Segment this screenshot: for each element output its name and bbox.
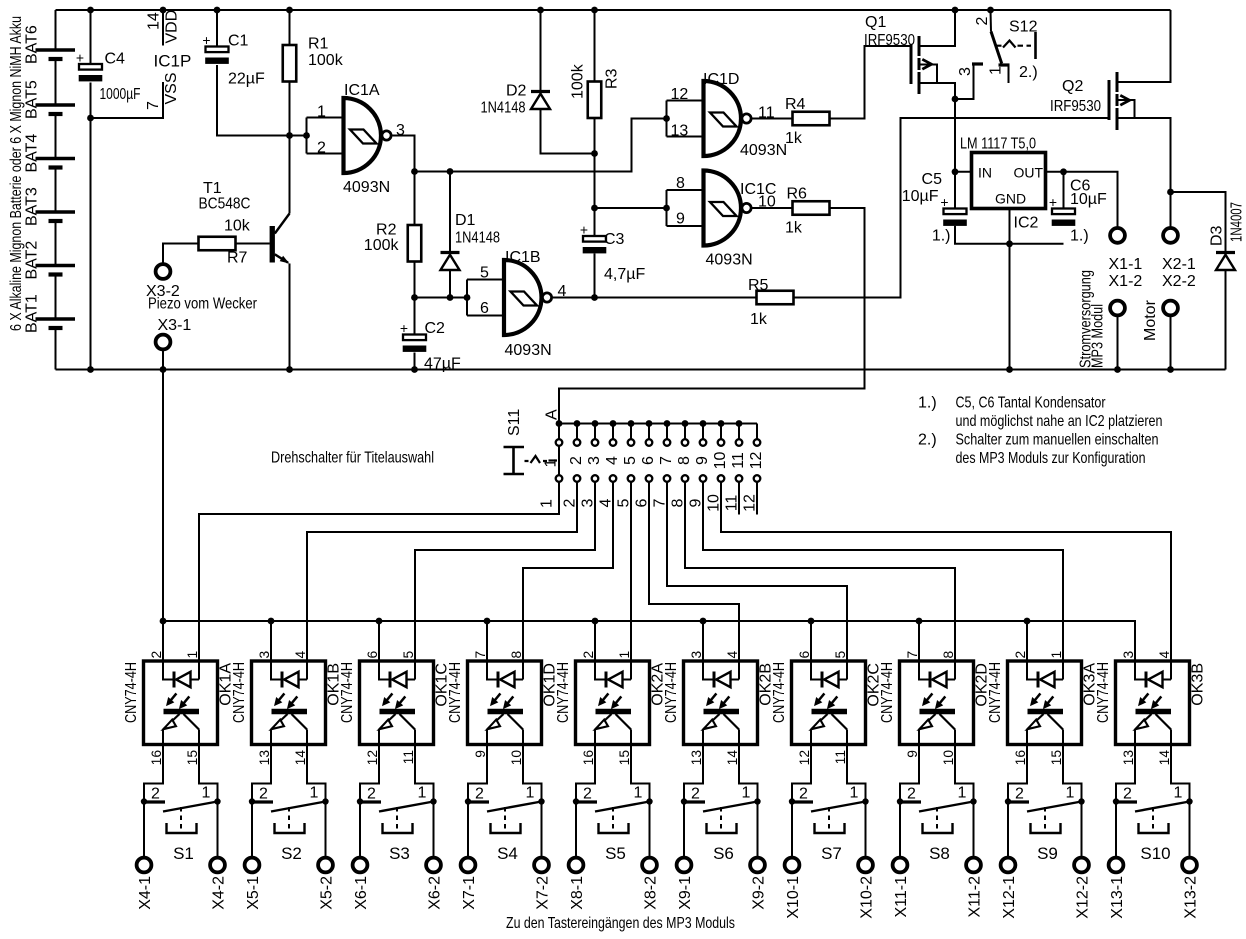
svg-text:1.): 1.) [932,228,951,245]
wire LM1117 GND [1009,209,1011,370]
battery cell BAT6 [36,48,76,52]
junction [664,420,671,427]
phototransistor [1028,709,1064,714]
svg-text:S5: S5 [605,844,626,863]
svg-text:9: 9 [905,750,920,758]
S12 actuator [997,45,1032,47]
svg-text:10: 10 [712,452,729,470]
svg-text:9: 9 [676,211,685,228]
terminal X2-2 [1163,301,1178,316]
junction [465,798,471,804]
svg-text:6: 6 [480,300,489,317]
svg-text:4093N: 4093N [740,142,787,159]
svg-text:IRF9530: IRF9530 [864,32,915,49]
svg-text:4: 4 [604,456,621,465]
svg-text:Schalter zum manuellen einscha: Schalter zum manuellen einschalten [956,432,1159,449]
svg-text:13: 13 [671,123,689,140]
svg-text:7: 7 [145,101,162,110]
wire [649,483,739,662]
junction [411,366,418,373]
svg-text:CNY74-4H: CNY74-4H [771,662,788,723]
svg-text:VDD: VDD [164,10,181,44]
svg-text:1: 1 [202,785,211,802]
wire optocoupler top bus [163,621,1135,661]
svg-text:CNY74-4H: CNY74-4H [663,662,680,723]
svg-text:R2: R2 [376,222,397,239]
svg-text:1N4007: 1N4007 [1229,202,1246,242]
svg-text:Q1: Q1 [865,14,886,31]
svg-text:1000µF: 1000µF [100,86,141,103]
svg-text:IC1A: IC1A [344,82,380,99]
svg-text:22µF: 22µF [228,71,265,88]
svg-text:R7: R7 [227,250,248,267]
svg-text:CNY74-4H: CNY74-4H [339,662,356,723]
svg-text:X12-1: X12-1 [1001,876,1018,919]
svg-text:15: 15 [1049,750,1064,766]
svg-text:1: 1 [310,785,319,802]
junction [376,618,383,625]
svg-text:CNY74-4H: CNY74-4H [555,662,572,723]
light arrows [387,693,392,700]
svg-text:X9-2: X9-2 [751,876,768,910]
svg-text:2: 2 [1123,786,1132,803]
S11 contact 5 [630,424,632,439]
wire R1 branch [289,10,291,45]
junction [646,798,652,804]
svg-text:BAT3: BAT3 [24,187,41,226]
junction [736,420,743,427]
junction [591,205,598,212]
wire [558,447,560,475]
svg-text:BAT5: BAT5 [24,80,41,119]
svg-text:7: 7 [652,498,669,507]
svg-text:1k: 1k [750,311,768,328]
svg-text:IRF9530: IRF9530 [1050,98,1101,115]
resistor R2 [408,225,422,262]
svg-text:10: 10 [509,750,524,766]
svg-text:+: + [580,222,588,238]
battery cell BAT1 [36,317,76,321]
wire cathode pin [918,621,920,661]
svg-text:Motor: Motor [1142,299,1159,341]
IC1P power symbol pin 7 VSS [91,82,164,118]
svg-text:D2: D2 [506,83,527,100]
svg-text:IC1C: IC1C [740,181,776,198]
LED inside [703,661,713,680]
junction [591,150,598,157]
light arrows [1035,693,1040,700]
terminal X1-2 [1110,301,1125,316]
LED inside [163,661,173,680]
svg-text:9: 9 [473,750,488,758]
diode D1 1N4148 [449,172,451,253]
svg-text:1: 1 [1174,785,1183,802]
svg-text:7: 7 [658,456,675,465]
terminal X5-1 [251,802,253,858]
junction [322,798,328,804]
terminal X9-2 [757,802,759,858]
svg-text:S4: S4 [497,844,518,863]
svg-text:X5-1: X5-1 [245,876,262,910]
phototransistor [488,709,524,714]
terminal X7-2 [541,802,543,858]
junction [862,798,868,804]
svg-text:CNY74-4H: CNY74-4H [987,662,1004,723]
phototransistor [164,709,200,714]
S11 contact 4 [612,424,614,439]
svg-text:S8: S8 [929,844,950,863]
svg-text:100k: 100k [570,63,587,99]
svg-text:1k: 1k [785,130,803,147]
svg-text:13: 13 [257,750,272,766]
battery stack BAT1-BAT6 left wire [55,10,57,50]
switch S7 [792,745,811,802]
junction [1186,798,1192,804]
op-amp gate IC1A (4093 NAND) [306,118,308,154]
wire LM1117 OUT to X1-1 [1046,172,1118,228]
svg-text:X9-1: X9-1 [677,876,694,910]
terminal X12-2 [1081,802,1083,858]
junction [952,96,959,103]
svg-text:OK3B: OK3B [1190,663,1207,706]
switch S6 [684,745,703,802]
svg-text:8: 8 [509,651,524,659]
svg-text:11: 11 [833,750,848,764]
svg-text:6 X Alkaline Mignon Batterie o: 6 X Alkaline Mignon Batterie oder 6 X Mi… [8,16,25,331]
wire X3-1 down to opto bus [162,350,164,370]
junction [1167,366,1174,373]
junction [1113,798,1119,804]
terminal X5-2 [325,802,327,858]
junction [591,294,598,301]
junction [808,618,815,625]
svg-text:2: 2 [691,786,700,803]
wire IC1B output [553,297,757,299]
svg-text:1: 1 [317,104,326,121]
svg-text:1.): 1.) [918,395,937,412]
resistor R6 1k [793,201,830,215]
svg-text:X6-1: X6-1 [353,876,370,910]
svg-text:1: 1 [634,785,643,802]
junction [573,798,579,804]
svg-text:CNY74-4H: CNY74-4H [1095,662,1112,723]
svg-text:BAT4: BAT4 [24,134,41,173]
svg-text:IC1D: IC1D [703,71,739,88]
svg-text:2: 2 [1015,786,1024,803]
wire LM1117 IN [955,171,972,173]
junction [1005,798,1011,804]
wire [630,483,632,662]
svg-text:Drehschalter für Titelauswahl: Drehschalter für Titelauswahl [271,450,434,467]
wire cathode pin [378,621,380,661]
wire C1 branch [216,10,218,47]
svg-text:1: 1 [539,499,556,508]
svg-text:X8-1: X8-1 [569,876,586,910]
svg-text:X8-2: X8-2 [643,876,660,910]
svg-text:6: 6 [634,498,651,507]
svg-text:4: 4 [293,651,308,659]
svg-text:S2: S2 [281,844,302,863]
switch S5 [576,745,595,802]
junction [484,618,491,625]
resistor R5 1k [757,291,794,305]
resistor R4 1k [793,112,830,126]
svg-text:C1: C1 [228,33,249,50]
wire VDD top rail [56,9,1171,11]
svg-text:12: 12 [671,86,689,103]
svg-text:R1: R1 [308,36,329,53]
wire X1-2 to rail [1117,316,1119,370]
svg-text:X2-1: X2-1 [1162,256,1196,273]
svg-text:15: 15 [617,750,632,766]
svg-text:1: 1 [1049,651,1064,659]
diode D2 1N4148 [540,10,542,92]
svg-text:12: 12 [742,494,759,512]
svg-text:12: 12 [365,750,380,765]
svg-text:4: 4 [725,651,740,659]
LED inside [919,661,929,680]
wire [721,483,1171,662]
svg-text:13: 13 [1121,750,1136,766]
junction [970,798,976,804]
wire Q1 source down to LM1117 IN [954,99,956,209]
wire [738,483,740,515]
svg-text:1: 1 [1066,785,1075,802]
terminal X11-2 [973,802,975,858]
svg-text:C5, C6 Tantal Kondensator: C5, C6 Tantal Kondensator [956,395,1107,412]
phototransistor [812,709,848,714]
switch S4 [468,745,487,802]
svg-text:1N4148: 1N4148 [481,100,526,117]
terminal X7-1 [467,802,469,858]
light arrows [819,693,824,700]
phototransistor [596,709,632,714]
svg-text:CNY74-4H: CNY74-4H [231,662,248,723]
wire S11 bus [559,423,757,425]
phototransistor [704,709,740,714]
svg-text:7: 7 [905,651,920,659]
svg-text:6: 6 [797,651,812,659]
junction [700,618,707,625]
wire cathode pin [1026,621,1028,661]
svg-text:IC1P: IC1P [154,52,192,71]
junction [1006,366,1013,373]
wire [307,483,577,662]
svg-text:8: 8 [670,498,687,507]
S11 actuator [504,447,525,474]
junction [556,420,563,427]
svg-text:2: 2 [799,786,808,803]
svg-text:3: 3 [957,67,974,76]
svg-text:2: 2 [317,140,326,157]
svg-text:X13-1: X13-1 [1109,876,1126,919]
light arrows [711,693,716,700]
junction [1060,168,1067,175]
junction [1078,798,1084,804]
junction [610,420,617,427]
svg-text:X11-2: X11-2 [967,876,984,918]
svg-text:3: 3 [586,456,603,465]
svg-text:+: + [202,32,210,48]
svg-text:7: 7 [473,651,488,659]
terminal X4-1 [143,802,145,858]
svg-text:X1-1: X1-1 [1109,256,1143,273]
S11 contact 6 [648,424,650,439]
wire cathode pin [702,621,704,661]
wire [685,483,955,662]
resistor R1 [283,45,297,82]
junction [160,366,167,373]
light arrows [603,693,608,700]
switch S1 [144,745,163,802]
svg-text:8: 8 [676,456,693,465]
svg-text:2: 2 [974,17,991,26]
wire IC1C output to R6 [751,207,793,209]
resistor R3 [588,82,602,119]
junction [411,168,418,175]
svg-text:1: 1 [988,66,1005,75]
LED inside [811,661,821,680]
wire X2-2 to rail [1170,316,1172,370]
svg-text:11: 11 [401,750,416,764]
wire R7 to X3-2 [163,244,199,265]
svg-text:10: 10 [706,494,723,512]
svg-text:14: 14 [146,12,163,30]
junction [789,798,795,804]
svg-text:2: 2 [1013,651,1028,659]
capacitor C1 [206,47,229,53]
wire to IC1C inputs [595,207,667,209]
svg-text:C2: C2 [425,320,446,337]
svg-text:1: 1 [418,785,427,802]
svg-text:100k: 100k [364,237,400,254]
junction [718,420,725,427]
svg-text:5: 5 [833,651,848,659]
wire R4 to Q1 gate [830,46,910,119]
junction [286,366,293,373]
svg-text:4093N: 4093N [505,342,552,359]
wire R6 to rotary switch common A [559,208,865,424]
terminal X6-1 [359,802,361,858]
svg-text:A: A [544,409,561,420]
svg-text:X1-2: X1-2 [1109,273,1143,290]
junction [646,420,653,427]
svg-text:GND: GND [995,191,1026,207]
svg-text:+: + [400,320,408,336]
junction [87,7,94,14]
svg-text:12: 12 [748,452,765,470]
junction [249,798,255,804]
junction [286,132,293,139]
svg-text:R5: R5 [748,277,769,294]
junction [537,7,544,14]
switch S2 [252,745,271,802]
junction [952,168,959,175]
phototransistor [920,709,956,714]
junction [1024,618,1031,625]
terminal X9-1 [683,802,685,858]
svg-text:10µF: 10µF [902,188,939,205]
svg-text:IN: IN [978,165,992,181]
svg-text:D1: D1 [455,212,476,229]
junction [214,7,221,14]
wire S12 pin3 to Q1 source node [955,64,974,99]
junction [214,798,220,804]
svg-text:X4-2: X4-2 [211,876,228,910]
LED inside [1135,661,1145,680]
diode D3 1N4007 [1171,192,1226,253]
svg-text:10k: 10k [224,218,251,235]
svg-text:11: 11 [730,452,747,469]
junction [160,618,167,625]
svg-text:9: 9 [694,456,711,465]
wire [667,483,847,662]
svg-text:2: 2 [583,786,592,803]
svg-text:R6: R6 [787,186,808,203]
S11 contact 10 [720,424,722,439]
resistor R7 10k [199,237,236,251]
svg-text:8: 8 [676,175,685,192]
svg-text:X7-2: X7-2 [535,876,552,910]
junction [754,798,760,804]
svg-text:X4-1: X4-1 [137,876,154,910]
svg-text:CNY74-4H: CNY74-4H [447,662,464,723]
wire [703,483,1063,662]
LED inside [271,661,281,680]
svg-text:1: 1 [185,651,200,659]
svg-text:13: 13 [689,750,704,766]
capacitor C6 [1052,209,1075,215]
switch S10 [1116,745,1135,802]
optocoupler OK3B CNY74-4H [1116,661,1190,745]
svg-text:1: 1 [617,651,632,659]
svg-text:BAT6: BAT6 [24,25,41,64]
svg-text:16: 16 [149,750,164,766]
svg-text:4,7µF: 4,7µF [604,266,645,283]
LED inside [487,661,497,680]
voltage regulator IC2 LM1117 T5,0 [972,153,1046,209]
terminal X10-1 [791,802,793,858]
svg-text:X10-1: X10-1 [785,876,802,919]
svg-text:12: 12 [797,750,812,765]
light arrows [1143,693,1148,700]
svg-text:BC548C: BC548C [199,196,251,213]
svg-text:X2-2: X2-2 [1162,273,1196,290]
svg-text:3: 3 [1121,651,1136,659]
svg-text:8: 8 [941,651,956,659]
junction [464,294,471,301]
junction [1114,366,1121,373]
junction [1167,189,1174,196]
svg-text:X7-1: X7-1 [461,876,478,910]
op-amp gate IC1D (4093 NAND) [666,101,668,137]
junction [952,7,959,14]
svg-text:14: 14 [293,750,308,766]
wire to IC1B inputs [415,297,468,299]
svg-text:1.): 1.) [1070,228,1089,245]
svg-text:X13-2: X13-2 [1183,876,1200,919]
junction [574,420,581,427]
wire cathode pin [486,621,488,661]
svg-text:15: 15 [185,750,200,766]
junction [681,798,687,804]
svg-text:2: 2 [581,651,596,659]
svg-text:C4: C4 [105,51,126,68]
svg-text:1N4148: 1N4148 [455,230,500,247]
terminal X8-2 [649,802,651,858]
svg-text:CNY74-4H: CNY74-4H [123,662,140,723]
svg-text:14: 14 [1157,750,1172,766]
